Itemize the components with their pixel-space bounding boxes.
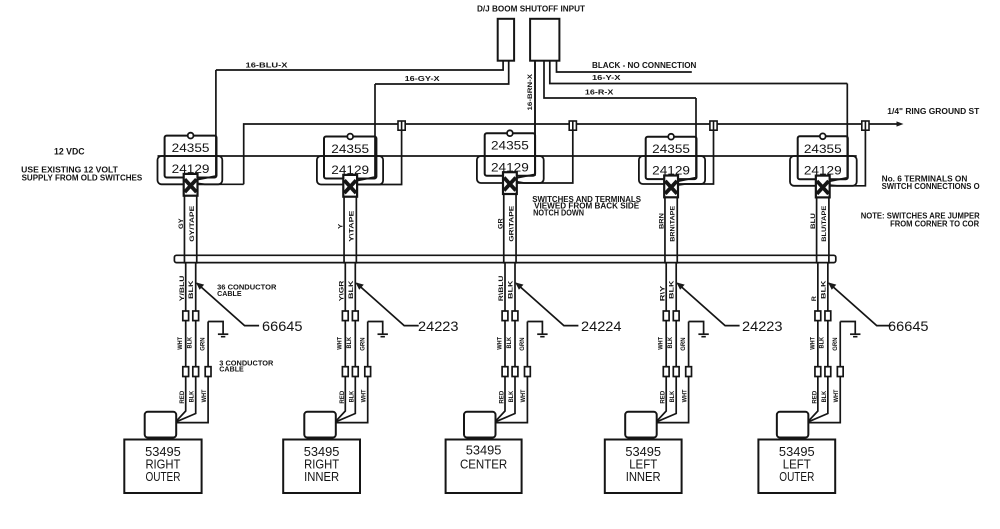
ground terminal square SW4 xyxy=(710,121,717,130)
label 24355 on SW3 xyxy=(491,139,529,153)
label wire color WHT lower SW5 xyxy=(833,389,840,402)
svg-text:OUTER: OUTER xyxy=(145,470,180,484)
label 16-BRN-X xyxy=(527,73,534,110)
label text for load box SW5 xyxy=(779,445,815,484)
splice terminal SW3 conductor3 row2 xyxy=(525,367,531,377)
label NOTCH DOWN xyxy=(533,209,584,218)
label NOTE SWITCHES ARE JUMPER xyxy=(861,212,980,221)
label wire color R\BLU xyxy=(498,275,505,301)
wire SW5 input drop to switch terminal xyxy=(828,84,847,182)
svg-text:BLK: BLK xyxy=(669,280,676,299)
label text for load box SW3 xyxy=(460,444,507,472)
svg-text:BLU: BLU xyxy=(810,213,817,229)
splice terminal SW4 conductor2 row2 xyxy=(673,367,679,377)
switch SW2 top terminal circle xyxy=(347,134,353,140)
svg-text:NOTCH DOWN: NOTCH DOWN xyxy=(533,209,584,218)
36 conductor cable bus bar xyxy=(174,255,835,262)
ground terminal square SW5 xyxy=(862,121,869,130)
label wire color GRN SW2 xyxy=(359,337,366,351)
svg-text:BLK: BLK xyxy=(667,337,674,349)
splice terminal SW3 conductor2 row1 xyxy=(512,311,518,321)
label wire color BLK SW3 xyxy=(506,337,513,349)
splice terminal SW3 conductor2 row2 xyxy=(512,367,518,377)
label SWITCH CONNECTIONS O xyxy=(882,182,981,191)
svg-text:BLK: BLK xyxy=(506,337,513,349)
label text for load box SW1 xyxy=(145,445,181,484)
wire SW1 conductor 1 (Y/BLU) xyxy=(176,263,186,422)
svg-text:1/4" RING GROUND ST: 1/4" RING GROUND ST xyxy=(887,107,979,116)
label wire color BLK SW4 xyxy=(667,337,674,349)
svg-text:BLK: BLK xyxy=(820,280,827,299)
label wire color BLK below bus SW1 xyxy=(188,280,195,299)
wire 16-GY-X xyxy=(375,61,509,84)
ground symbol SW2 xyxy=(368,322,388,337)
svg-text:GR\TAPE: GR\TAPE xyxy=(508,205,515,242)
svg-text:CENTER: CENTER xyxy=(460,457,507,471)
svg-text:CABLE: CABLE xyxy=(217,289,242,298)
switch SW4 inner box xyxy=(646,137,697,179)
svg-text:66645: 66645 xyxy=(888,319,929,334)
label part number 24223 SW2 xyxy=(418,319,459,334)
svg-text:WHT: WHT xyxy=(177,337,184,350)
label part number 66645 SW1 xyxy=(262,319,303,334)
label part number 24223 SW4 xyxy=(742,319,783,334)
label 12 VDC xyxy=(54,146,85,156)
label wire color BLK below bus SW5 xyxy=(820,280,827,299)
label D/J BOOM SHUTOFF INPUT xyxy=(477,3,586,13)
connector box SW4 xyxy=(625,412,657,438)
label wire color GRN SW4 xyxy=(680,337,687,351)
svg-text:WHT: WHT xyxy=(337,337,344,350)
connector box SW2 neck xyxy=(310,438,331,440)
wire SW4 ground jumper xyxy=(678,130,714,185)
splice terminal SW4 conductor2 row1 xyxy=(673,311,679,321)
load box 53495 CENTER xyxy=(446,440,522,494)
svg-text:BLK: BLK xyxy=(188,280,195,299)
switch SW2 inner box xyxy=(324,137,376,179)
svg-text:RED: RED xyxy=(660,390,667,403)
switch SW1 X contact symbol xyxy=(184,174,198,196)
wire SW1 conductor 3 (GRN) xyxy=(176,322,208,423)
svg-text:BLK: BLK xyxy=(189,390,196,402)
svg-text:INNER: INNER xyxy=(626,470,661,484)
svg-text:BLU\TAPE: BLU\TAPE xyxy=(821,205,828,242)
splice terminal SW5 conductor1 row2 xyxy=(815,367,821,377)
svg-text:GY/TAPE: GY/TAPE xyxy=(189,205,196,242)
svg-text:BLK: BLK xyxy=(508,280,515,299)
cable SW4 to bus (outline) xyxy=(665,197,677,263)
svg-text:53495: 53495 xyxy=(466,444,502,458)
svg-text:D/J BOOM SHUTOFF INPUT: D/J BOOM SHUTOFF INPUT xyxy=(477,3,586,13)
switch SW5 outer box xyxy=(790,156,857,186)
label cable color Y xyxy=(338,223,345,229)
label wire color RED SW3 xyxy=(499,390,506,403)
ground terminal square SW2 xyxy=(398,121,405,130)
ground strap wire 1/4 inch ring xyxy=(244,121,904,184)
svg-text:24355: 24355 xyxy=(652,142,690,156)
svg-text:RED: RED xyxy=(339,390,346,403)
wire 16-BLU-X xyxy=(216,61,503,70)
label wire color BLK lower SW1 xyxy=(189,390,196,402)
label wire color WHT SW2 xyxy=(337,337,344,350)
connector box SW5 neck xyxy=(782,438,803,440)
wire SW5 conductor 1 (R) xyxy=(808,263,818,422)
label wire color WHT SW1 xyxy=(177,337,184,350)
label 24129 on SW4 xyxy=(652,164,690,178)
ground symbol SW3 xyxy=(527,322,547,337)
label 24355 on SW5 xyxy=(804,142,842,156)
splice terminal SW4 conductor3 row2 xyxy=(686,367,692,377)
connector box SW3 xyxy=(464,412,496,438)
label cable color BRN xyxy=(659,213,666,229)
svg-text:Y/BLU: Y/BLU xyxy=(179,275,186,301)
wire 16-Y-X xyxy=(550,61,848,84)
wire 16-R-X xyxy=(544,61,696,98)
svg-text:WHT: WHT xyxy=(520,389,527,402)
svg-text:24355: 24355 xyxy=(491,139,529,153)
switch SW5 X contact symbol xyxy=(816,176,830,198)
svg-text:GR: GR xyxy=(497,218,504,229)
label wire color RED SW2 xyxy=(339,390,346,403)
label 24355 on SW1 xyxy=(172,141,210,155)
svg-text:WHT: WHT xyxy=(658,337,665,350)
label 16-Y-X xyxy=(592,73,621,82)
splice terminal SW1 conductor2 row1 xyxy=(193,311,199,321)
leader line to cable part 24224 SW3 xyxy=(515,282,578,325)
splice terminal SW5 conductor3 row2 xyxy=(837,367,843,377)
switch SW1 outer box xyxy=(158,156,223,184)
label wire color GRN SW5 xyxy=(832,337,839,351)
splice terminal SW1 conductor2 row2 xyxy=(193,367,199,377)
wire SW5 conductor 3 (GRN) xyxy=(808,322,840,423)
label USE EXISTING 12 VOLT xyxy=(21,165,118,174)
svg-text:12 VDC: 12 VDC xyxy=(54,146,85,156)
load box 53495 LEFT OUTER xyxy=(758,440,835,494)
connector J1 (left shutoff input box) xyxy=(498,19,514,61)
splice terminal SW2 conductor2 row2 xyxy=(352,367,358,377)
wire SW5 ground jumper xyxy=(830,130,866,186)
label cable color GR xyxy=(497,218,504,229)
svg-text:16-R-X: 16-R-X xyxy=(585,87,614,96)
leader line to cable part 24223 SW4 xyxy=(676,282,739,325)
svg-text:16-BRN-X: 16-BRN-X xyxy=(527,73,534,110)
connector box SW1 neck xyxy=(150,438,171,440)
svg-text:16-GY-X: 16-GY-X xyxy=(405,74,440,83)
svg-text:24223: 24223 xyxy=(418,319,459,334)
wire SW1 conductor 2 (BLK) xyxy=(176,263,196,422)
label wire color RED SW4 xyxy=(660,390,667,403)
label wire color BLK lower SW2 xyxy=(348,390,355,402)
wire BLACK no connection xyxy=(557,61,692,72)
svg-text:BLK: BLK xyxy=(821,390,828,402)
label wire color WHT lower SW4 xyxy=(681,389,688,402)
svg-text:66645: 66645 xyxy=(262,319,303,334)
label wire color BLK lower SW4 xyxy=(669,390,676,402)
splice terminal SW2 conductor1 row1 xyxy=(342,311,348,321)
label wire color BLK lower SW3 xyxy=(508,390,515,402)
switch SW5 top terminal circle xyxy=(820,133,826,139)
switch SW4 top terminal circle xyxy=(668,134,674,140)
label cable color GR\TAPE xyxy=(508,205,515,242)
ground symbol SW5 xyxy=(840,322,860,337)
switch SW4 outer box xyxy=(639,156,705,184)
svg-text:24223: 24223 xyxy=(742,319,783,334)
label FROM CORNER TO COR xyxy=(890,220,979,229)
svg-text:Y: Y xyxy=(338,223,345,229)
label wire color WHT SW4 xyxy=(658,337,665,350)
label 3 CONDUCTOR xyxy=(219,359,273,368)
wire SW2 conductor 2 (BLK) xyxy=(336,263,356,422)
label part number 24224 SW3 xyxy=(581,319,622,334)
label cable color BLU\TAPE xyxy=(821,205,828,242)
cable SW1 to bus (outline) xyxy=(184,196,196,264)
svg-text:16-Y-X: 16-Y-X xyxy=(592,73,621,82)
label VIEWED FROM BACK SIDE xyxy=(534,201,640,210)
splice terminal SW5 conductor1 row1 xyxy=(815,311,821,321)
splice terminal SW4 conductor1 row2 xyxy=(663,367,669,377)
label 16-R-X xyxy=(585,87,614,96)
wire 16-BRN-X vertical drop xyxy=(534,61,536,176)
svg-text:BLK: BLK xyxy=(187,337,194,349)
switch SW5 inner box xyxy=(798,136,848,179)
svg-text:R: R xyxy=(811,296,818,302)
label wire color BLK SW2 xyxy=(346,337,353,349)
svg-text:GRN: GRN xyxy=(359,337,366,351)
svg-text:BLK: BLK xyxy=(348,390,355,402)
splice terminal SW1 conductor3 row2 xyxy=(205,367,211,377)
connector box SW2 xyxy=(304,412,336,438)
svg-text:R\BLU: R\BLU xyxy=(498,275,505,301)
label wire color Y/BLU xyxy=(179,275,186,301)
label text for load box SW2 xyxy=(304,445,340,484)
ground symbol SW1 xyxy=(208,322,228,337)
svg-text:16-BLU-X: 16-BLU-X xyxy=(246,61,288,70)
svg-text:GY: GY xyxy=(178,218,185,229)
load box 53495 LEFT INNER xyxy=(605,440,682,494)
svg-text:RED: RED xyxy=(179,390,186,403)
label cable color BRN\TAPE xyxy=(670,205,677,242)
svg-text:FROM CORNER TO COR: FROM CORNER TO COR xyxy=(890,220,979,229)
switch SW1 inner box xyxy=(165,136,217,178)
label 24355 on SW2 xyxy=(331,142,369,156)
wire SW3 input drop to switch terminal xyxy=(515,61,535,179)
connector box SW3 neck xyxy=(469,438,490,440)
wire SW4 conductor 2 (BLK) xyxy=(657,263,677,422)
wire SW4 conductor 1 (R\Y) xyxy=(657,263,667,422)
label wire color BLK SW1 xyxy=(187,337,194,349)
svg-text:BLK: BLK xyxy=(346,337,353,349)
label 24129 on SW2 xyxy=(331,163,369,177)
label CABLE (3 conductor) xyxy=(219,365,244,374)
svg-text:WHT: WHT xyxy=(361,389,368,402)
leader line to cable part 24223 SW2 xyxy=(356,282,419,325)
wire SW4 input drop to switch terminal xyxy=(677,98,696,182)
label wire color WHT lower SW3 xyxy=(520,389,527,402)
label cable color GY xyxy=(178,218,185,229)
svg-text:WHT: WHT xyxy=(496,337,503,350)
wire SW2 conductor 1 (Y\GR) xyxy=(336,263,346,422)
svg-text:24355: 24355 xyxy=(804,142,842,156)
label 24129 on SW1 xyxy=(172,162,210,176)
label wire color RED SW1 xyxy=(179,390,186,403)
label part number 66645 SW5 xyxy=(888,319,929,334)
label SUPPLY FROM OLD SWITCHES xyxy=(22,173,143,182)
label text for load box SW4 xyxy=(625,445,661,484)
svg-text:GRN: GRN xyxy=(832,337,839,351)
connector J2 (right shutoff input box) xyxy=(530,19,559,61)
splice terminal SW5 conductor2 row1 xyxy=(825,311,831,321)
svg-text:WHT: WHT xyxy=(809,337,816,350)
wire SW3 conductor 1 (R\BLU) xyxy=(496,263,506,422)
wire SW2 conductor 3 (GRN) xyxy=(336,322,368,423)
svg-text:Y\GR: Y\GR xyxy=(338,280,345,301)
switch SW4 X contact symbol xyxy=(664,176,678,198)
svg-text:SUPPLY FROM OLD SWITCHES: SUPPLY FROM OLD SWITCHES xyxy=(22,173,143,182)
cable SW3 to bus (outline) xyxy=(504,194,516,264)
load box 53495 RIGHT OUTER xyxy=(124,440,201,494)
svg-text:BLK: BLK xyxy=(348,280,355,299)
svg-text:Y\TAPE: Y\TAPE xyxy=(349,210,356,242)
label SWITCHES AND TERMINALS xyxy=(532,195,641,204)
svg-text:24355: 24355 xyxy=(331,142,369,156)
label wire color WHT lower SW2 xyxy=(361,389,368,402)
label wire color BLK below bus SW4 xyxy=(669,280,676,299)
svg-text:RED: RED xyxy=(499,390,506,403)
cable SW2 to bus (outline) xyxy=(344,197,356,264)
wire SW1 ground jumper xyxy=(198,182,244,185)
svg-text:OUTER: OUTER xyxy=(779,470,814,484)
switch SW2 outer box xyxy=(317,156,383,185)
label 24129 on SW5 xyxy=(804,164,842,178)
wire SW3 conductor 2 (BLK) xyxy=(496,263,516,422)
svg-text:BLK: BLK xyxy=(508,390,515,402)
svg-text:BRN: BRN xyxy=(659,213,666,229)
svg-text:WHT: WHT xyxy=(833,389,840,402)
label wire color GRN SW3 xyxy=(519,337,526,351)
label 36 CONDUCTOR xyxy=(217,282,277,291)
switch SW3 inner box xyxy=(485,133,535,176)
wire 12 VDC supply line xyxy=(158,155,857,157)
switch SW1 top terminal circle xyxy=(188,133,194,139)
label wire color GRN SW1 xyxy=(200,337,207,351)
label cable color Y\TAPE xyxy=(349,210,356,242)
cable SW5 to bus (outline) xyxy=(817,197,829,263)
splice terminal SW4 conductor1 row1 xyxy=(663,311,669,321)
label No. 6 TERMINALS ON xyxy=(882,175,968,184)
svg-text:BLK: BLK xyxy=(669,390,676,402)
label wire color BLK below bus SW2 xyxy=(348,280,355,299)
svg-text:INNER: INNER xyxy=(304,470,339,484)
label wire color R xyxy=(811,296,818,302)
splice terminal SW1 conductor1 row2 xyxy=(183,367,189,377)
svg-text:SWITCH CONNECTIONS O: SWITCH CONNECTIONS O xyxy=(882,182,981,191)
svg-text:BRN\TAPE: BRN\TAPE xyxy=(670,205,677,242)
leader line to cable part 66645 SW5 xyxy=(828,282,891,325)
label wire color R\Y xyxy=(659,285,666,302)
svg-text:R\Y: R\Y xyxy=(659,285,666,302)
label wire color WHT SW3 xyxy=(496,337,503,350)
splice terminal SW1 conductor1 row1 xyxy=(183,311,189,321)
svg-text:GRN: GRN xyxy=(680,337,687,351)
wire SW5 conductor 2 (BLK) xyxy=(808,263,828,422)
svg-text:GRN: GRN xyxy=(200,337,207,351)
label wire color BLK below bus SW3 xyxy=(508,280,515,299)
svg-text:WHT: WHT xyxy=(201,389,208,402)
wire SW2 ground jumper xyxy=(357,130,402,184)
svg-text:BLK: BLK xyxy=(819,337,826,349)
svg-text:24355: 24355 xyxy=(172,141,210,155)
label wire color RED SW5 xyxy=(811,390,818,403)
label wire color BLK SW5 xyxy=(819,337,826,349)
load box 53495 RIGHT INNER xyxy=(283,440,360,494)
splice terminal SW3 conductor1 row1 xyxy=(502,311,508,321)
switch SW3 outer box xyxy=(477,156,544,183)
svg-text:CABLE: CABLE xyxy=(219,365,244,374)
ground symbol SW4 xyxy=(689,322,709,337)
connector box SW1 xyxy=(145,412,177,438)
label cable color GY/TAPE xyxy=(189,205,196,242)
splice terminal SW3 conductor1 row2 xyxy=(502,367,508,377)
label CABLE (36 conductor) xyxy=(217,289,242,298)
switch SW3 X contact symbol xyxy=(503,172,517,194)
switch SW3 top terminal circle xyxy=(507,130,513,136)
splice terminal SW2 conductor3 row2 xyxy=(365,367,371,377)
label wire color WHT SW5 xyxy=(809,337,816,350)
label wire color WHT lower SW1 xyxy=(201,389,208,402)
label 24129 on SW3 xyxy=(491,160,529,174)
label cable color BLU xyxy=(810,213,817,229)
splice terminal SW2 conductor2 row1 xyxy=(352,311,358,321)
svg-text:BLACK - NO CONNECTION: BLACK - NO CONNECTION xyxy=(592,61,697,70)
connector box SW5 xyxy=(777,412,809,438)
svg-text:24224: 24224 xyxy=(581,319,622,334)
svg-text:GRN: GRN xyxy=(519,337,526,351)
ground terminal square SW3 xyxy=(569,121,576,130)
svg-text:WHT: WHT xyxy=(681,389,688,402)
label 16-BLU-X xyxy=(246,61,288,70)
wire SW4 conductor 3 (GRN) xyxy=(657,322,689,423)
wire SW3 conductor 3 (GRN) xyxy=(496,322,528,423)
label BLACK - NO CONNECTION xyxy=(592,61,697,70)
label 1/4 inch RING GROUND STRAP xyxy=(887,107,979,116)
svg-text:RED: RED xyxy=(811,390,818,403)
label 16-GY-X xyxy=(405,74,440,83)
connector box SW4 neck xyxy=(631,438,652,440)
label wire color Y\GR xyxy=(338,280,345,301)
wire SW3 ground jumper xyxy=(517,130,573,183)
leader line to cable part 66645 SW1 xyxy=(196,282,259,325)
label 24355 on SW4 xyxy=(652,142,690,156)
wire SW1 input drop to switch terminal xyxy=(196,70,216,180)
splice terminal SW5 conductor2 row2 xyxy=(825,367,831,377)
splice terminal SW2 conductor1 row2 xyxy=(342,367,348,377)
wire SW2 input drop to switch terminal xyxy=(356,84,375,181)
switch SW2 X contact symbol xyxy=(343,175,357,197)
label wire color BLK lower SW5 xyxy=(821,390,828,402)
